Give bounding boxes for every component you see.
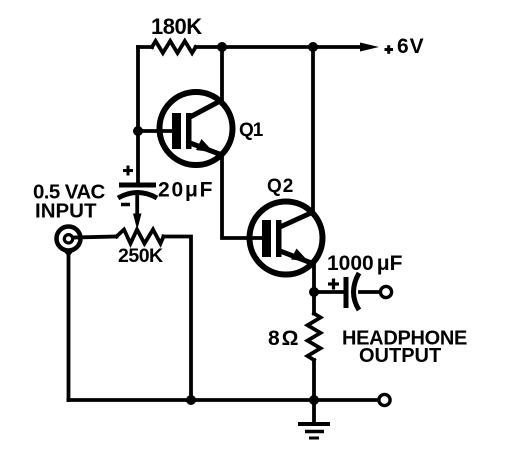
node junction dot bottom rail pot xyxy=(186,395,196,405)
svg-text:Q2: Q2 xyxy=(267,176,294,197)
wire Q1 collector vertical xyxy=(220,47,224,101)
transistor Q2 xyxy=(250,202,323,275)
ground symbol xyxy=(298,424,330,438)
wire top rail right segment to +6V arrow xyxy=(196,45,364,49)
wire bottom rail xyxy=(69,398,379,402)
resistor R1 180K xyxy=(152,41,196,53)
svg-text:180K: 180K xyxy=(151,14,202,39)
svg-text:OUTPUT: OUTPUT xyxy=(359,345,441,367)
capacitor C2 1000uF electrolytic xyxy=(328,273,359,310)
ground stub xyxy=(312,400,316,422)
connector J1 input jack xyxy=(57,227,81,258)
wire pot right end down to bottom rail xyxy=(164,237,192,401)
svg-text:Q1: Q1 xyxy=(239,120,264,141)
+6V supply arrowhead xyxy=(360,43,379,52)
svg-text:20μF: 20μF xyxy=(158,179,214,202)
wire input jack ground vertical xyxy=(67,253,71,400)
svg-text:8Ω: 8Ω xyxy=(268,327,301,350)
connector output terminal upper xyxy=(380,286,391,297)
wire top rail left segment xyxy=(138,45,152,49)
svg-text:6V: 6V xyxy=(397,35,425,58)
node junction dot Q2 emitter output xyxy=(309,287,319,297)
wire Q2 emitter vertical xyxy=(312,263,316,314)
svg-text:INPUT: INPUT xyxy=(35,200,97,223)
wire 20uF cap bottom lead xyxy=(135,197,139,216)
svg-text:250K: 250K xyxy=(118,245,163,267)
resistor R3 8 ohm xyxy=(308,314,321,361)
wire 1000uF cap left lead xyxy=(314,290,342,294)
wire Q2 collector vertical xyxy=(311,47,315,213)
wire Q1 base lead xyxy=(138,129,173,133)
wire left vertical from rail to capacitor xyxy=(136,47,140,183)
node junction dot Q1 base xyxy=(133,126,143,136)
wire 8 ohm bottom lead xyxy=(312,360,316,400)
node junction dot bottom rail ground xyxy=(309,395,319,405)
resistor R2 250K potentiometer body xyxy=(117,230,164,244)
capacitor C1 20uF electrolytic xyxy=(118,166,157,205)
label +6V xyxy=(385,35,425,58)
node junction dot top rail at Q1 collector xyxy=(217,42,227,52)
wiper arrow of potentiometer xyxy=(133,214,142,231)
svg-text:1000μF: 1000μF xyxy=(327,252,403,275)
wire input jack to pot xyxy=(73,237,117,238)
connector output terminal lower xyxy=(379,394,390,405)
node junction dot top rail at Q2 collector xyxy=(308,42,318,52)
wire Q1 emitter vertical to Q2 base xyxy=(222,155,264,238)
wire 1000uF cap right lead to output terminal xyxy=(360,290,379,294)
transistor Q1 xyxy=(160,92,233,165)
